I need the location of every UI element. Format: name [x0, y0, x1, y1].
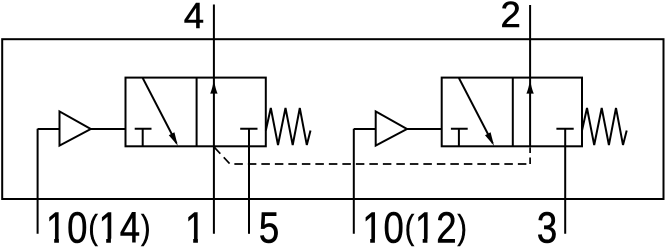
svg-text:2: 2 — [501, 0, 521, 35]
svg-text:4: 4 — [184, 0, 204, 36]
svg-text:3: 3 — [537, 203, 557, 250]
svg-text:5: 5 — [259, 203, 279, 250]
